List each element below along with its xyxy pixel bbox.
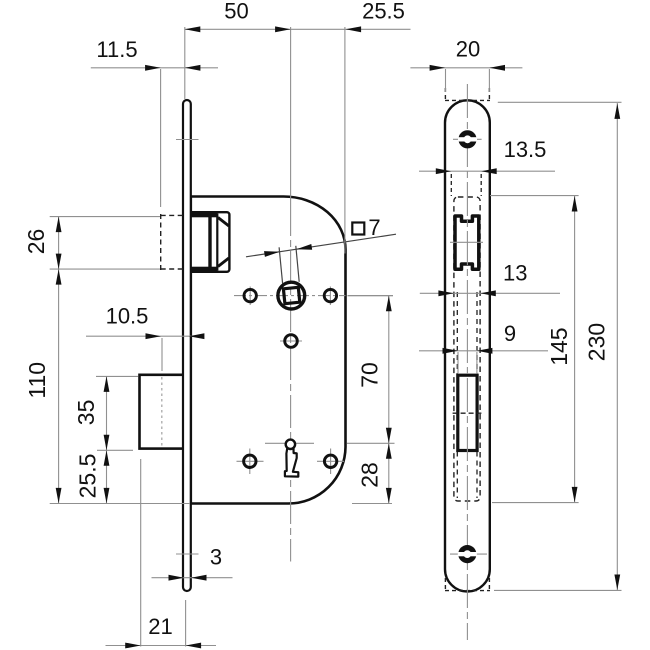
svg-text:145: 145 (546, 327, 572, 365)
svg-text:25.5: 25.5 (75, 454, 101, 499)
svg-text:7: 7 (368, 215, 380, 240)
svg-text:13.5: 13.5 (504, 137, 547, 162)
svg-text:25.5: 25.5 (362, 0, 405, 24)
svg-text:230: 230 (584, 323, 610, 361)
svg-text:10.5: 10.5 (106, 304, 149, 329)
svg-text:35: 35 (73, 400, 99, 426)
svg-text:26: 26 (23, 229, 49, 255)
svg-text:50: 50 (224, 0, 248, 24)
svg-text:21: 21 (148, 614, 172, 639)
svg-text:28: 28 (357, 462, 383, 488)
svg-text:11.5: 11.5 (96, 37, 137, 62)
svg-text:20: 20 (456, 37, 480, 62)
svg-text:13: 13 (503, 260, 527, 285)
svg-text:3: 3 (210, 545, 222, 570)
svg-text:70: 70 (357, 362, 383, 388)
svg-text:9: 9 (504, 321, 516, 346)
svg-text:110: 110 (24, 362, 50, 399)
